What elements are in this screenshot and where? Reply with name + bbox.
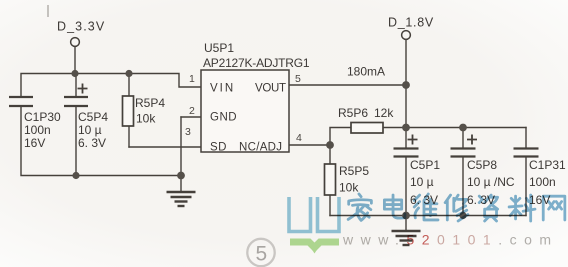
svg-text:100n: 100n xyxy=(24,123,51,137)
svg-text:C1P31: C1P31 xyxy=(529,158,566,172)
svg-text:3: 3 xyxy=(185,126,191,138)
svg-text:GND: GND xyxy=(210,112,237,124)
svg-text:C1P30: C1P30 xyxy=(24,110,61,124)
svg-text:10 µ: 10 µ xyxy=(410,175,434,189)
svg-text:R5P4: R5P4 xyxy=(135,96,165,110)
svg-text:5: 5 xyxy=(256,243,268,266)
svg-text:C5P8: C5P8 xyxy=(467,158,497,172)
svg-text:C5P1: C5P1 xyxy=(410,158,440,172)
svg-text:10 µ: 10 µ xyxy=(78,123,102,137)
svg-text:D_1.8V: D_1.8V xyxy=(388,16,434,30)
svg-text:10k: 10k xyxy=(136,112,156,126)
svg-text:U5P1: U5P1 xyxy=(204,41,234,55)
svg-text:D_3.3V: D_3.3V xyxy=(57,20,105,34)
svg-text:12k: 12k xyxy=(374,106,394,120)
svg-text:www.520101.com: www.520101.com xyxy=(342,232,559,248)
svg-text:R5P5: R5P5 xyxy=(339,164,369,178)
svg-text:C5P4: C5P4 xyxy=(78,110,108,124)
svg-text:1: 1 xyxy=(189,73,195,85)
svg-text:R5P6: R5P6 xyxy=(338,106,368,120)
svg-text:VIN: VIN xyxy=(210,83,235,95)
svg-text:VOUT: VOUT xyxy=(255,83,286,95)
svg-text:4: 4 xyxy=(296,132,302,144)
svg-text:10 µ /NC: 10 µ /NC xyxy=(467,175,515,189)
svg-text:AP2127K-ADJTRG1: AP2127K-ADJTRG1 xyxy=(203,56,310,70)
svg-text:5: 5 xyxy=(295,73,301,85)
svg-text:SD: SD xyxy=(210,142,227,154)
svg-text:100n: 100n xyxy=(529,175,556,189)
svg-text:6. 3V: 6. 3V xyxy=(78,136,106,150)
svg-text:180mA: 180mA xyxy=(347,65,385,79)
svg-text:16V: 16V xyxy=(24,136,45,150)
svg-text:10k: 10k xyxy=(339,181,359,195)
svg-text:NC/ADJ: NC/ADJ xyxy=(239,142,282,154)
svg-text:2: 2 xyxy=(189,105,195,117)
